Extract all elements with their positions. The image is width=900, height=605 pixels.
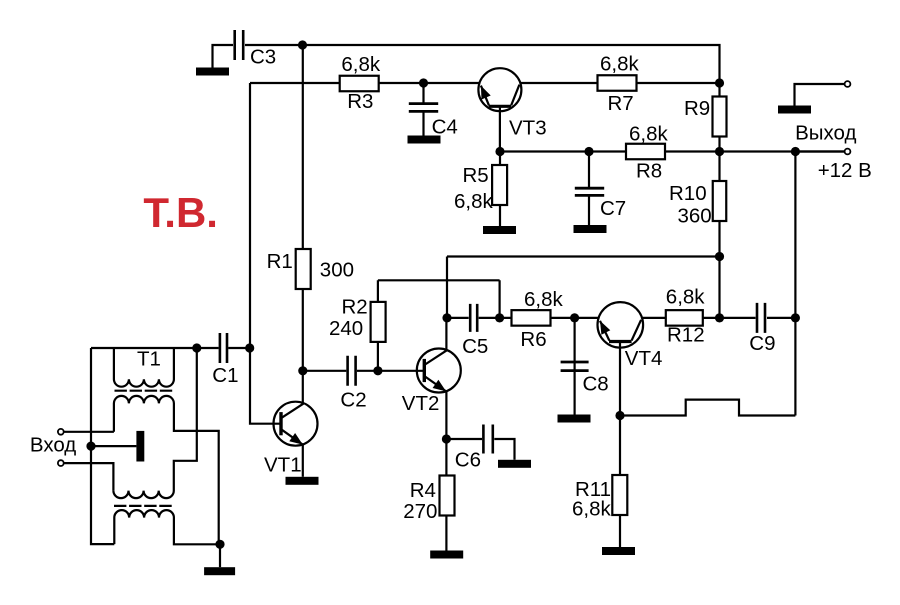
svg-text:+12 В: +12 В <box>818 159 872 182</box>
svg-text:R5: R5 <box>463 164 489 187</box>
svg-text:R7: R7 <box>608 92 634 115</box>
svg-text:6,8k: 6,8k <box>524 288 563 311</box>
svg-text:C9: C9 <box>749 332 775 355</box>
svg-text:R3: R3 <box>347 90 373 113</box>
svg-text:C1: C1 <box>212 364 238 387</box>
svg-text:Т1: Т1 <box>137 347 161 370</box>
svg-text:Вход: Вход <box>30 433 76 456</box>
svg-text:270: 270 <box>403 500 437 523</box>
svg-text:R1: R1 <box>267 250 293 273</box>
svg-text:C5: C5 <box>462 335 488 358</box>
svg-text:R9: R9 <box>684 97 710 120</box>
svg-text:C3: C3 <box>250 46 276 69</box>
svg-text:300: 300 <box>320 259 354 282</box>
svg-text:C7: C7 <box>600 197 626 220</box>
svg-text:240: 240 <box>329 317 363 340</box>
svg-text:C4: C4 <box>432 115 458 138</box>
svg-text:Т.В.: Т.В. <box>143 189 218 236</box>
svg-text:6,8k: 6,8k <box>341 53 380 76</box>
svg-text:VT4: VT4 <box>625 347 663 370</box>
svg-text:R10: R10 <box>669 182 707 205</box>
svg-text:C2: C2 <box>340 388 366 411</box>
svg-text:R12: R12 <box>667 323 705 346</box>
svg-text:VT3: VT3 <box>509 117 547 140</box>
svg-text:R4: R4 <box>410 479 436 502</box>
svg-text:R2: R2 <box>342 296 368 319</box>
svg-text:6,8k: 6,8k <box>629 123 668 146</box>
svg-text:C6: C6 <box>455 449 481 472</box>
svg-text:VT1: VT1 <box>264 453 302 476</box>
svg-text:6,8k: 6,8k <box>572 498 611 521</box>
svg-text:360: 360 <box>678 205 712 228</box>
svg-text:6,8k: 6,8k <box>600 53 639 76</box>
svg-text:R6: R6 <box>520 328 546 351</box>
svg-text:C8: C8 <box>583 372 609 395</box>
svg-text:VT2: VT2 <box>402 392 440 415</box>
svg-text:R8: R8 <box>636 160 662 183</box>
svg-text:6,8k: 6,8k <box>454 190 493 213</box>
svg-text:6,8k: 6,8k <box>666 286 705 309</box>
svg-text:Выход: Выход <box>795 122 856 145</box>
